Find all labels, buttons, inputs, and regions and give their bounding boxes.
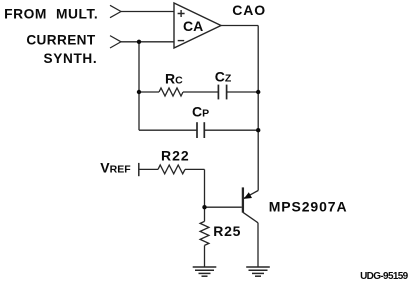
svg-text:CURRENT: CURRENT (26, 32, 96, 47)
svg-text:CZ: CZ (215, 69, 232, 85)
svg-text:VREF: VREF (100, 160, 131, 176)
svg-text:UDG-95159: UDG-95159 (360, 271, 409, 282)
svg-text:R25: R25 (213, 223, 241, 239)
svg-text:R22: R22 (161, 147, 190, 163)
svg-text:CP: CP (192, 104, 209, 120)
svg-text:CA: CA (183, 18, 203, 34)
svg-text:CAO: CAO (232, 2, 266, 18)
svg-text:MPS2907A: MPS2907A (269, 199, 348, 215)
svg-text:FROM MULT.: FROM MULT. (4, 6, 98, 21)
svg-text:SYNTH.: SYNTH. (44, 51, 98, 66)
svg-text:RC: RC (165, 71, 183, 87)
